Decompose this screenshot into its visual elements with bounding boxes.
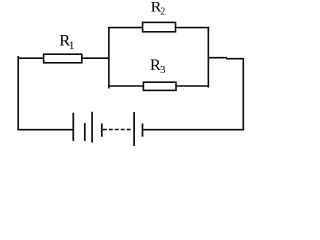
svg-text:2: 2: [160, 7, 165, 18]
resistor R3: [143, 82, 176, 90]
wire mid tap segment 1: [208, 57, 227, 59]
wire right vertical: [242, 58, 244, 130]
resistor R2: [143, 22, 176, 31]
wire bottom branch left: [108, 85, 143, 87]
wire bottom left horizontal: [17, 129, 74, 131]
wire parallel left vertical: [108, 27, 110, 89]
wire mid tap segment 2: [226, 58, 244, 60]
wire bottom branch right: [176, 85, 209, 87]
battery plate long 1: [72, 113, 74, 141]
battery plate short 2: [101, 124, 103, 137]
wire left vertical: [17, 56, 19, 131]
label R3: [150, 57, 166, 76]
battery plate long 2: [91, 112, 93, 143]
battery plate short 1: [84, 123, 86, 141]
label R1: [59, 33, 74, 53]
wire bottom right horizontal: [143, 129, 244, 131]
svg-text:1: 1: [69, 38, 75, 52]
wire R1 to node: [82, 57, 110, 59]
resistor R1: [44, 54, 82, 63]
label R2: [151, 0, 166, 18]
wire top branch left: [108, 27, 143, 29]
wire top left to R1: [17, 57, 43, 59]
battery plate short 3: [142, 124, 144, 137]
svg-text:3: 3: [160, 64, 166, 76]
wire top branch right: [176, 27, 210, 29]
battery dashed link: [103, 129, 131, 131]
wire parallel right vertical: [207, 27, 209, 88]
battery plate long 3: [133, 112, 135, 146]
